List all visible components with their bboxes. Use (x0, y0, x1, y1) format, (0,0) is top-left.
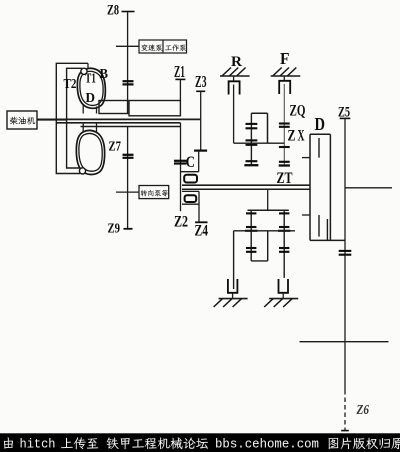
svg-text:ZQ: ZQ (290, 103, 306, 120)
svg-text:Z4: Z4 (195, 223, 209, 240)
svg-text:Z3: Z3 (195, 72, 207, 91)
svg-text:Z: Z (288, 128, 296, 145)
svg-text:D: D (86, 91, 96, 106)
svg-text:bbs.cehome.com: bbs.cehome.com (215, 438, 319, 452)
svg-text:T1: T1 (85, 72, 96, 87)
svg-text:hitch: hitch (20, 438, 56, 452)
svg-text:Z6: Z6 (356, 403, 369, 418)
svg-text:C: C (186, 154, 195, 171)
svg-text:Z7: Z7 (109, 140, 122, 155)
svg-text:Z8: Z8 (107, 3, 119, 19)
svg-text:X: X (298, 128, 305, 145)
svg-text:T2: T2 (64, 77, 77, 92)
svg-text:D: D (315, 114, 326, 134)
svg-text:F: F (280, 49, 290, 68)
svg-text:Z1: Z1 (174, 62, 185, 81)
svg-text:B: B (100, 67, 109, 82)
svg-text:Z2: Z2 (174, 214, 188, 231)
svg-text:Z9: Z9 (108, 222, 121, 237)
svg-text:ZT: ZT (277, 170, 294, 187)
svg-text:R: R (231, 54, 242, 70)
